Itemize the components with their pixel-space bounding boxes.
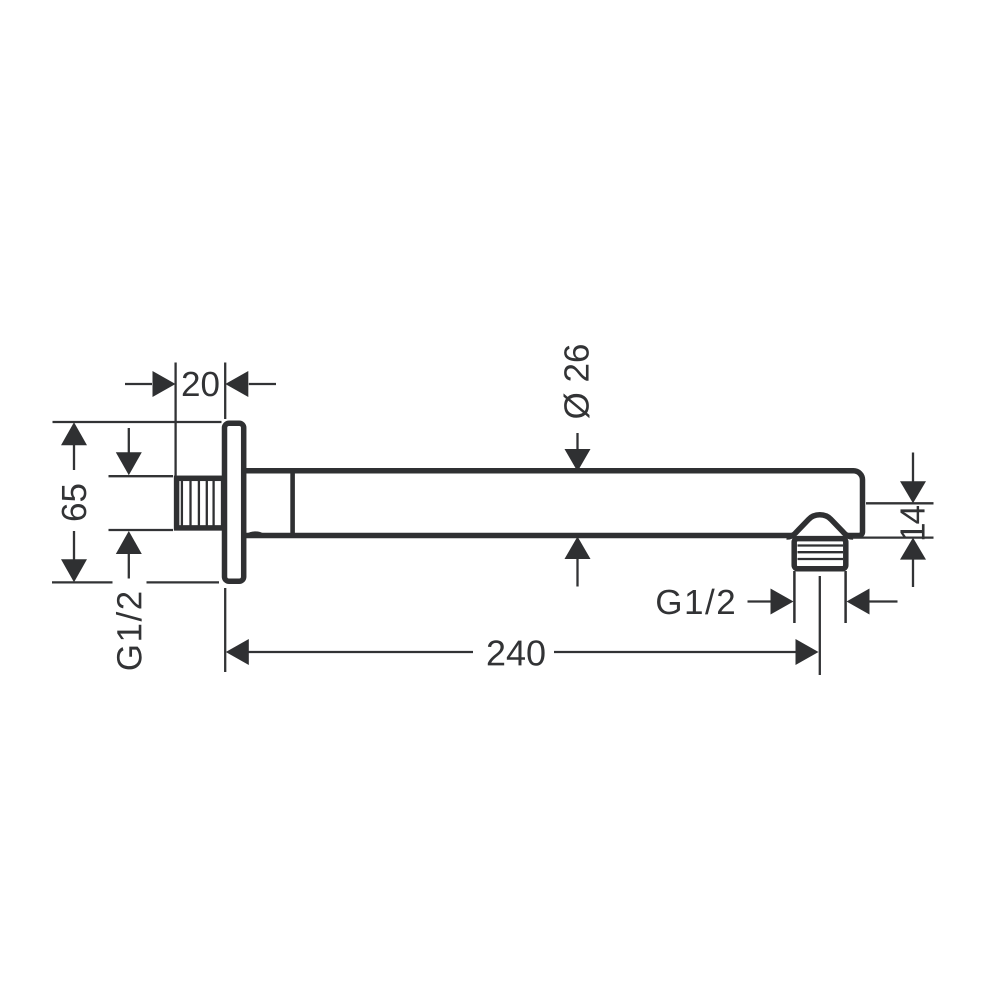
- dim 65: bottom arrowhead: [61, 559, 87, 582]
- dim 65: top arrowhead: [61, 422, 87, 445]
- shower arm tube: [245, 471, 863, 536]
- G1/2 left: extension lines: [109, 475, 174, 477]
- label 14: [900, 506, 924, 539]
- outlet centerline: [819, 576, 821, 675]
- dim 240: extension line: [224, 588, 226, 672]
- fillet detail at flange/tube junction: [248, 533, 264, 535]
- dim 14: upper arrowhead: [900, 481, 926, 503]
- dim 14: extension lines: [866, 502, 934, 504]
- label O 26: [563, 345, 589, 418]
- dim 14: lower arrowhead: [900, 538, 926, 560]
- outlet thread nipple: [794, 539, 846, 569]
- dim 20: left arrowhead: [153, 371, 176, 397]
- label 20: [183, 372, 219, 397]
- dim 20: extension lines: [174, 363, 176, 477]
- dim 65: line segments: [73, 445, 75, 470]
- G1/2 left: upper arrowhead: [116, 452, 142, 475]
- left thread hatch: [182, 479, 214, 527]
- G1/2 left: arrow tails: [128, 428, 130, 453]
- dim 240: line segments: [248, 651, 473, 653]
- G1/2 right: right arrowhead: [847, 589, 870, 615]
- label G1/2 left: [116, 593, 142, 670]
- joint line on arm: [290, 471, 295, 535]
- outlet thread hatch: [798, 546, 844, 560]
- dim Ø26: upper arrowhead: [565, 449, 591, 472]
- dim 20: arrow tails: [125, 383, 152, 385]
- G1/2 right: left arrowhead: [771, 589, 794, 615]
- G1/2 right: arrow tails: [748, 600, 773, 602]
- wall flange: [225, 423, 244, 581]
- dim 14: arrow tails: [912, 453, 914, 482]
- label G1/2 right: [657, 589, 734, 615]
- G1/2 left: lower arrowhead: [116, 531, 142, 554]
- dim Ø26: arrow tails: [576, 433, 578, 450]
- dim 240: right arrowhead: [796, 639, 819, 665]
- outlet dome: [787, 515, 854, 537]
- dim 240: left arrowhead: [226, 639, 249, 665]
- dim 65: extension lines: [53, 421, 222, 423]
- label 240: [488, 640, 545, 665]
- outlet pipe walls: [794, 571, 845, 623]
- left thread nipple: [177, 478, 224, 528]
- dim Ø26: lower arrowhead: [565, 537, 591, 560]
- dim 20: right arrowhead: [225, 371, 248, 397]
- label 65: [62, 485, 87, 521]
